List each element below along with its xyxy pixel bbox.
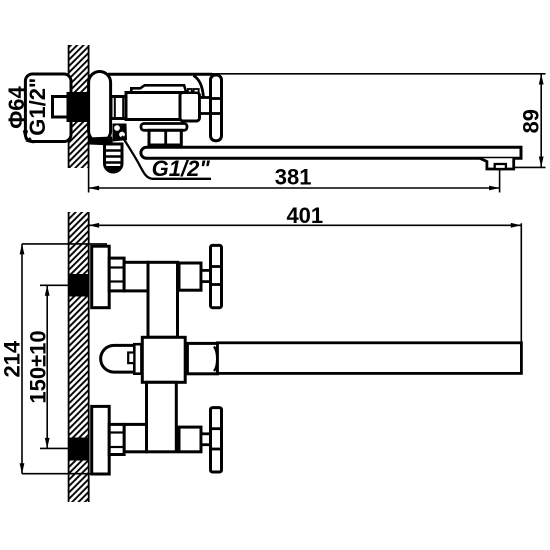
lower stem bbox=[201, 434, 211, 445]
dim 150 bottom extension bbox=[40, 447, 69, 449]
shower hose nipple (ribbed) bbox=[105, 144, 123, 172]
upper handle bar bbox=[211, 245, 222, 307]
dim 150 top extension bbox=[40, 284, 69, 286]
lower tube bbox=[147, 382, 177, 452]
handle bar side view bbox=[211, 75, 222, 141]
dim 89 bottom extension line bbox=[513, 166, 546, 168]
lower nut bbox=[109, 424, 124, 454]
lower flange front view bbox=[92, 406, 110, 474]
dim 401 right extension bbox=[520, 223, 522, 342]
diverter arch bbox=[101, 345, 142, 372]
dim 381 line bbox=[89, 187, 500, 189]
spout arm bbox=[141, 147, 521, 158]
svg-text:401: 401 bbox=[286, 203, 323, 228]
black web under escutcheon bbox=[89, 137, 113, 146]
svg-text:89: 89 bbox=[519, 109, 544, 133]
aerator bbox=[480, 158, 514, 169]
upper flange front view bbox=[92, 246, 110, 308]
bottom view wall hatch bbox=[69, 212, 89, 502]
dim 214 line bbox=[21, 244, 23, 474]
inlet white square bbox=[53, 97, 69, 118]
dim 214 top extension bbox=[22, 243, 107, 245]
upper tube bbox=[148, 262, 178, 337]
upper stem bbox=[201, 270, 211, 281]
svg-text:381: 381 bbox=[275, 165, 312, 190]
main body band bbox=[126, 93, 187, 120]
dim 401 line bbox=[89, 224, 522, 226]
handle hub bbox=[200, 98, 212, 114]
dim 89 line bbox=[540, 74, 542, 167]
escutcheon flange side view bbox=[89, 72, 111, 143]
dim 214 bottom extension bbox=[22, 473, 109, 475]
lower handle bar bbox=[211, 408, 222, 472]
handle flare curve bbox=[194, 76, 204, 98]
svg-text:214: 214 bbox=[0, 340, 25, 377]
dim 381 left extension bbox=[88, 143, 90, 193]
inlet black tube through wall bbox=[67, 92, 92, 122]
top view wall hatch bbox=[69, 45, 89, 168]
dim 381 right extension bbox=[499, 170, 501, 193]
body top line bbox=[108, 73, 212, 76]
center block bbox=[142, 337, 185, 382]
upper collar bbox=[179, 263, 201, 290]
spout nut front view bbox=[187, 343, 217, 373]
right cartridge block bbox=[180, 93, 200, 122]
upper nut bbox=[109, 258, 124, 291]
svg-text:150±10: 150±10 bbox=[26, 330, 51, 403]
bonnet cap bbox=[131, 85, 186, 93]
dim 89 top extension line bbox=[212, 73, 546, 75]
spout legs bbox=[149, 130, 181, 145]
lower collar bbox=[179, 427, 201, 452]
leader line to G1/2 label bbox=[122, 136, 211, 179]
svg-text:G1/2": G1/2" bbox=[152, 156, 211, 181]
body bottom slab bbox=[141, 124, 187, 131]
upper eccentric body bbox=[124, 262, 148, 291]
wall pass-through black square upper bbox=[69, 274, 89, 297]
spout band front view bbox=[218, 343, 522, 374]
neck hex nut bbox=[111, 97, 127, 119]
dimension Phi64 arrows bbox=[23, 131, 28, 142]
lower eccentric body bbox=[124, 424, 146, 451]
svg-text:G1/2": G1/2" bbox=[25, 78, 50, 136]
wall pass-through black square lower bbox=[69, 438, 89, 461]
dim 150 line bbox=[46, 285, 48, 448]
wall fitting rounded rect (behind wall) bbox=[25, 74, 71, 142]
